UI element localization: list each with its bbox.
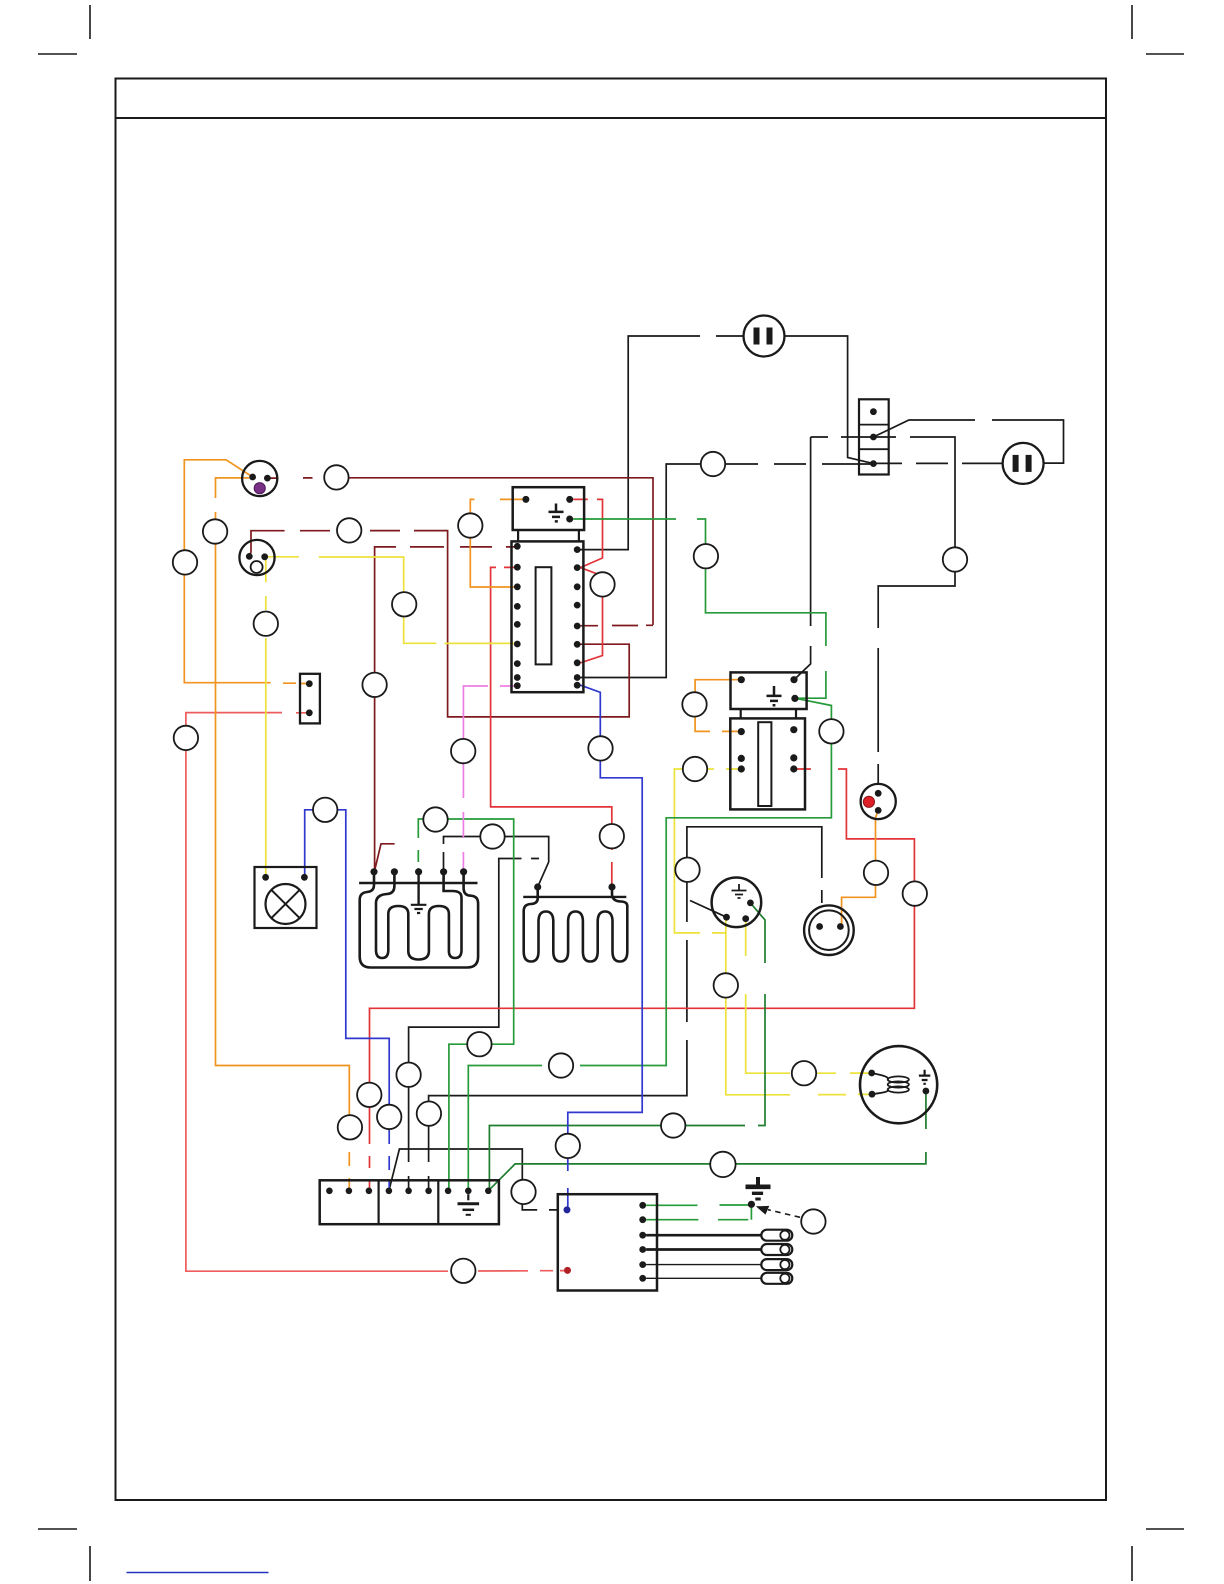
wire red: clock L2 riser to element-R pin2 — [491, 567, 612, 884]
convection motor M1 — [712, 878, 762, 928]
wire dark-red: plug2 loop to clock R6 — [249, 531, 629, 717]
wire orange: relay jumper top dot to lower pin1 — [695, 680, 741, 732]
wire yellow: relay pin3 jumper down to lamp lower dot — [674, 769, 872, 1095]
wire dark-red: clock L1 to element-L pin1 — [375, 547, 518, 870]
wire green: box pin2 dashes to ground node — [646, 1205, 751, 1220]
wire black: clock R8 to row C to outlet2 left — [581, 463, 1003, 677]
wire yellow: plug2 to clock L6 — [265, 557, 518, 644]
oven thermostat U2 — [730, 672, 806, 809]
wire red: clock top jumper zigzag — [573, 499, 602, 662]
wire orange: red-dot plug to double outlet — [842, 810, 879, 926]
wire black: row B corner to switch dot2 — [811, 436, 874, 438]
wire dark-red: element-L pin1 switch arm — [374, 844, 394, 872]
link underline bottom-left — [127, 1572, 269, 1574]
crop mark bottom-right — [1132, 1529, 1184, 1581]
spade lug terminals — [646, 1230, 792, 1284]
clock pins — [514, 496, 581, 689]
wire green: terminal dot7 to element-L ground pin — [418, 819, 513, 1191]
wire yellow: plug2 down to oven-light box — [265, 557, 267, 877]
wire orange: plug1 to terminal dot2 long run — [216, 478, 350, 1191]
convenience outlet CO1 (double ring) — [804, 905, 854, 955]
crop mark bottom-left — [38, 1529, 90, 1581]
wire orange: clock jumper top dot to L3 — [470, 499, 526, 587]
wire magenta: clock L9 to element-L pin5 — [463, 686, 517, 872]
wire black: terminal dot5 riser — [409, 859, 539, 1191]
wire black: motor switch arm — [690, 901, 727, 918]
wire blue: clock R9 to connector box — [568, 685, 642, 1210]
oven lamp LA1 (coil) — [860, 1046, 937, 1123]
wire green: box pin1 dashes to ground node — [646, 1204, 751, 1206]
round plug J2 (open pin) — [239, 540, 274, 575]
wire black: outlet1 right lead to switch dot3 — [785, 336, 874, 464]
wire red: bottom red run to connector box — [186, 713, 568, 1272]
wire green: clock to relay to terminal dot8 — [468, 519, 831, 1191]
wire green: oven lamp to terminal dot9 diagonal — [488, 1091, 926, 1191]
wire black: terminal dot4 trapezoid riser — [389, 1149, 558, 1210]
wire black: terminal dot6 riser and motor box loop — [429, 827, 822, 1191]
thermostat ground symbol — [767, 686, 782, 705]
outlet P2 (disconnect plug right) — [1003, 443, 1044, 484]
crop mark top-left — [38, 5, 90, 54]
ground node and symbol near box — [746, 1177, 771, 1208]
clock ground symbol — [549, 504, 564, 522]
wire black: dashes into red-dot plug top — [877, 764, 879, 784]
wire dark-red: plug1 to clock R5 — [267, 478, 653, 626]
outlet P1 (disconnect plug top) — [744, 316, 785, 357]
wire-number callout circles — [173, 452, 967, 1283]
round plug J1 (purple pin) — [242, 461, 277, 496]
wire black dashed: callout arrow to ground node — [768, 1210, 800, 1218]
clock/timer U1 — [512, 487, 585, 692]
wire red: relay pin3 to terminal dot3 — [370, 769, 915, 1191]
broil element HE1 — [359, 868, 478, 967]
crop mark top-right — [1132, 5, 1184, 54]
round plug J3 (red pin) — [861, 784, 896, 819]
page border frame — [116, 79, 1107, 1501]
bake element HE2 — [523, 883, 627, 961]
wire orange: plug1 diagonal lead and door-switch top pin — [184, 460, 309, 684]
wire black: row B down to relay arm — [794, 437, 811, 680]
title bar rule — [116, 117, 1107, 119]
thermostat pins — [738, 676, 799, 773]
wire black: switch arm dot2 to outlet2 right loop — [873, 420, 1063, 463]
switch block S1 — [859, 399, 889, 474]
oven light L1 (box with crossed lamp) — [255, 867, 317, 928]
terminal block TB1 — [320, 1180, 499, 1224]
wire blue: oven-light box to terminal dot4 — [305, 810, 390, 1191]
door switch DS1 — [300, 674, 320, 724]
wire yellow: motor to oven lamp upper dot — [746, 919, 872, 1073]
wire black: element-L pin4 jumper to element-R pin1 arm — [444, 837, 549, 887]
wire black: switch dot2 to red-dot plug — [873, 437, 955, 752]
wire black: outlet1 left lead to clock pin R1 — [581, 336, 744, 550]
wire green: motor to terminal dot9 — [489, 903, 765, 1191]
wire yellow: motor stub on jumper — [725, 920, 727, 933]
control connector box CB1 — [558, 1194, 657, 1290]
